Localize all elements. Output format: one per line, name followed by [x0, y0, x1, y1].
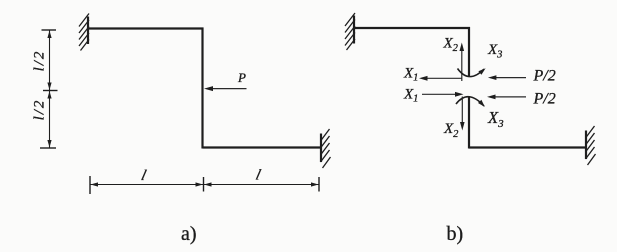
member bottom horizontal (b) [469, 146, 586, 148]
svg-text:P/2: P/2 [533, 91, 556, 108]
svg-text:P: P [237, 70, 246, 85]
force X1 lower arrow (b) [422, 92, 464, 97]
fixed support wall top-left (b) [345, 13, 355, 50]
member top horizontal (a) [88, 27, 204, 29]
moment X3 upper arc (b) [458, 68, 486, 76]
dimension line l+l horizontal (a) [90, 176, 319, 194]
svg-text:l/2: l/2 [32, 50, 48, 72]
member bottom horizontal (a) [203, 146, 322, 148]
fixed support wall top-left (a) [79, 14, 89, 51]
dim arrow left at middle right (a) [204, 182, 212, 186]
dim arrow right at middle left (a) [196, 182, 204, 186]
force X2 lower arrow (b) [460, 97, 465, 131]
moment X3 lower arc (b) [456, 97, 485, 107]
dim arrow up at middle lower (a) [47, 91, 51, 99]
svg-text:l/2: l/2 [32, 99, 48, 121]
fixed support wall bottom-right (a) [321, 129, 331, 168]
force X1 upper arrow (b) [419, 76, 462, 81]
dim arrow down at middle upper (a) [47, 83, 51, 91]
member vertical (a) [201, 28, 203, 149]
force X2 upper arrow (b) [460, 43, 465, 82]
member vertical lower half (b) [468, 96, 470, 149]
dim arrow up at top (a) [47, 31, 51, 39]
force P/2 upper arrow (b) [488, 75, 526, 80]
svg-text:b): b) [447, 223, 464, 245]
member top horizontal (b) [354, 27, 470, 29]
dim arrow left at left end (a) [91, 182, 99, 186]
dimension line l/2+l/2 vertical (a) [40, 30, 58, 148]
fixed support wall bottom-right (b) [586, 126, 596, 165]
dim arrow right at right end (a) [311, 182, 319, 186]
load P arrow (a) [204, 86, 247, 91]
svg-text:a): a) [181, 223, 197, 245]
dim arrow down at bottom (a) [47, 140, 51, 148]
svg-text:P/2: P/2 [533, 68, 556, 85]
force P/2 lower arrow (b) [487, 95, 526, 100]
member vertical upper half (b) [468, 27, 470, 76]
